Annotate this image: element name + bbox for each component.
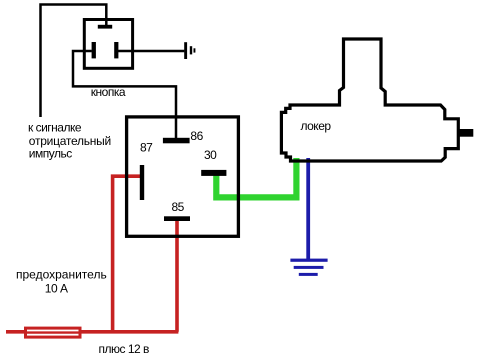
svg-text:10 А: 10 А [45,282,68,296]
wire: button left pin down and across to relay pin 86 [73,51,176,138]
ground GND2 (chassis, blue) [290,259,327,276]
actuator M1 connector nub [457,129,473,137]
wire: alarm signal to button top pin [41,5,107,118]
actuator M1 (локер) outline [281,39,458,161]
svg-text:плюс 12 в: плюс 12 в [99,342,150,356]
svg-text:85: 85 [172,200,185,214]
svg-text:к сигналке: к сигналке [28,121,82,135]
wire red: bottom +12V bus [80,330,178,334]
svg-text:30: 30 [204,148,217,162]
relay pin 85 contact [164,216,190,221]
wire green: relay pin 30 to locker [216,158,296,197]
button S1 top pin contact [98,25,112,29]
svg-text:локер: локер [301,119,332,133]
ground GND1 (button, black) [184,42,195,59]
svg-text:кнопка: кнопка [91,85,126,99]
svg-text:импульс: импульс [29,147,72,161]
wire red: relay pin 85 down to +12V bus [175,219,179,332]
svg-text:86: 86 [190,129,203,143]
relay pin 30 contact [201,170,226,176]
button S1 body (кнопка) [84,20,132,69]
button S1 left pin contact [92,42,96,58]
wire: button right pin to ground [117,50,184,53]
wire blue: locker to chassis ground [306,158,310,260]
svg-text:предохранитель: предохранитель [16,268,107,282]
wire red: relay pin 87 to fuse bus (+12V) [113,176,143,332]
button S1 right pin contact [114,42,118,58]
fuse F1 10A [26,328,81,337]
relay pin 86 contact [163,138,190,144]
relay K1 body [127,117,239,236]
relay pin 87 contact [140,165,144,200]
svg-text:87: 87 [140,141,153,155]
wire red: fuse left lead [6,330,26,334]
